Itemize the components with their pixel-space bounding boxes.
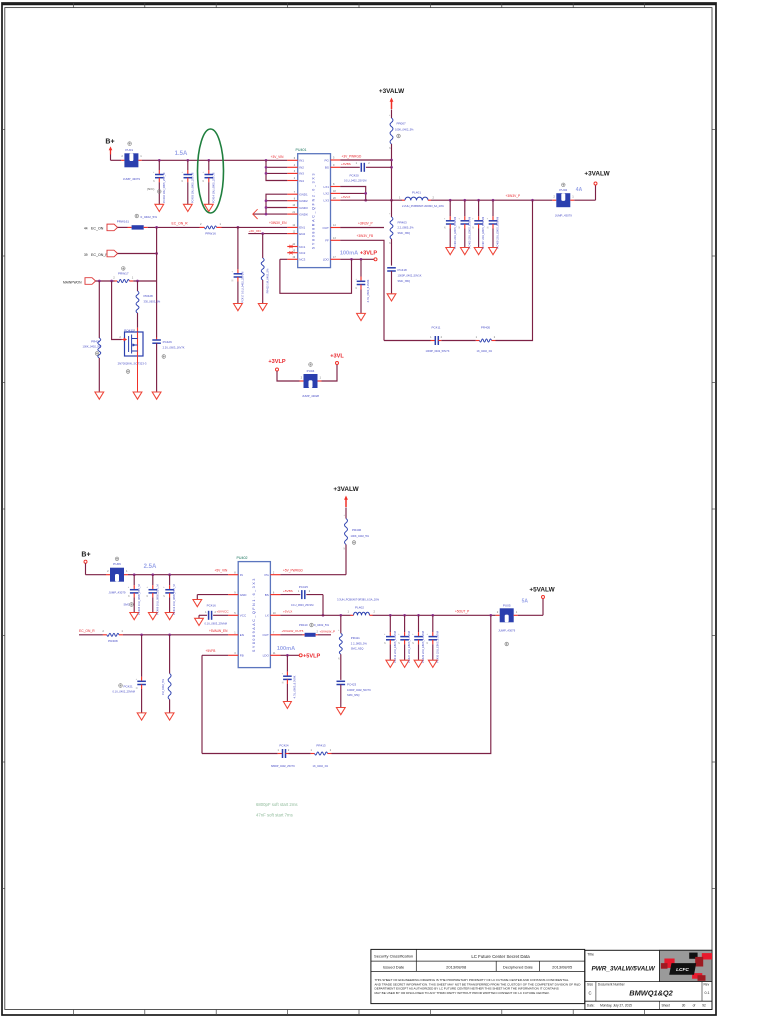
transistor Q PQ435 2N7002KW	[118, 328, 147, 373]
svg-text:+3C_ON: +3C_ON	[249, 229, 261, 233]
svg-text:2.2_0805_5%: 2.2_0805_5%	[351, 641, 368, 645]
jumper PU01	[121, 142, 142, 181]
svg-text:1: 1	[220, 222, 222, 226]
svg-text:2: 2	[497, 610, 499, 614]
power flag +3VALW (top right)	[574, 171, 610, 201]
svg-text:LX1: LX1	[324, 185, 330, 189]
svg-text:LCFC: LCFC	[676, 967, 689, 973]
svg-text:+3VL: +3VL	[330, 354, 344, 360]
resistor PR406 100K	[344, 515, 370, 551]
svg-text:LX: LX	[265, 614, 269, 618]
wire NC3 to LDO loop	[280, 259, 352, 293]
svg-text:PC416: PC416	[207, 603, 217, 607]
svg-text:SY8089AAC_QFN1.6_3X3: SY8089AAC_QFN1.6_3X3	[252, 577, 256, 652]
capacitor PC407 (out cap 3)	[472, 200, 485, 255]
wire MAINPWON to bus	[133, 280, 156, 283]
svg-text:PC403 10U_0805_25V_M: PC403 10U_0805_25V_M	[190, 173, 194, 203]
svg-text:16: 16	[292, 204, 295, 207]
svg-text:N: N	[128, 596, 130, 598]
svg-text:PU05: PU05	[503, 603, 511, 607]
svg-text:8: 8	[333, 183, 335, 186]
svg-text:PR410: PR410	[299, 623, 308, 627]
svg-text:2: 2	[441, 336, 443, 339]
svg-text:BS: BS	[325, 166, 329, 170]
svg-text:47nF soft start 7ms: 47nF soft start 7ms	[256, 813, 293, 818]
svg-text:PR413: PR413	[316, 744, 326, 748]
svg-text:N: N	[472, 227, 474, 229]
svg-text:7: 7	[294, 191, 296, 194]
svg-text:PC415: PC415	[299, 585, 309, 589]
svg-text:14: 14	[333, 224, 336, 227]
document number row text	[587, 983, 710, 998]
IC PU402 left pins	[228, 571, 247, 657]
svg-text:100mA: 100mA	[340, 251, 358, 257]
svg-text:2: 2	[113, 275, 115, 279]
svg-text:100K_0402_5%: 100K_0402_5%	[351, 534, 370, 538]
svg-text:4: 4	[294, 164, 296, 167]
svg-text:0.1: 0.1	[705, 991, 710, 995]
svg-text:PU04: PU04	[307, 369, 315, 373]
svg-text:17: 17	[333, 256, 336, 259]
capacitor PC403 (input cap 2)	[182, 160, 195, 211]
svg-text:PR427: PR427	[91, 339, 101, 343]
svg-text:+5VFB: +5VFB	[206, 649, 216, 653]
svg-text:4.7U_0603_6.3V9K: 4.7U_0603_6.3V9K	[366, 279, 370, 302]
svg-text:SMC_N5Q: SMC_N5Q	[398, 279, 411, 283]
capacitor PC409 (input cap 2)	[147, 575, 160, 620]
svg-text:5: 5	[333, 157, 335, 160]
svg-text:SY8088RAC_QFN2.0_3X3: SY8088RAC_QFN2.0_3X3	[312, 172, 316, 249]
svg-text:2: 2	[553, 195, 555, 199]
capacitor PC406 (input cap 1)	[128, 575, 141, 620]
svg-text:PC407 22U_E80S_6.3V9M: PC407 22U_E80S_6.3V9M	[481, 217, 485, 249]
svg-text:92: 92	[702, 1004, 706, 1008]
svg-text:EC_ON_R: EC_ON_R	[91, 253, 108, 257]
svg-text:EC_ON_R: EC_ON_R	[172, 221, 189, 225]
net label +5VALW_EN	[209, 629, 228, 633]
svg-text:+: +	[444, 218, 446, 220]
svg-text:BMWQ1&Q2: BMWQ1&Q2	[629, 989, 673, 998]
svg-text:+5VLP: +5VLP	[303, 653, 321, 659]
svg-text:PRW16: PRW16	[205, 232, 216, 236]
svg-text:4.7U_0603_6.3V9K: 4.7U_0603_6.3V9K	[293, 675, 297, 698]
svg-text:MAY BE USED BY OR DISCLOSED TO: MAY BE USED BY OR DISCLOSED TO ANY THIRD…	[375, 991, 550, 995]
svg-text:SMC_N5Q: SMC_N5Q	[347, 693, 360, 697]
svg-text:Sheet: Sheet	[662, 1004, 670, 1008]
svg-text:+: +	[459, 218, 461, 220]
svg-text:+5VALW: +5VALW	[529, 586, 555, 593]
power flag B+ (bottom circuit)	[81, 551, 106, 574]
svg-text:2: 2	[368, 162, 370, 165]
svg-text:4A: 4A	[576, 187, 583, 193]
wire top feedback loop	[384, 200, 533, 340]
svg-text:+3IN3V_FB: +3IN3V_FB	[357, 234, 374, 238]
wire PQ435 source to ground	[133, 356, 142, 399]
svg-text:+5VALW_P: +5VALW_P	[320, 629, 336, 633]
power flag +3VLP (LDO)	[360, 251, 378, 257]
capacitor PC416 (VCC decouple)	[195, 603, 229, 625]
svg-text:+: +	[128, 587, 130, 589]
net label +5V_PWRGD	[283, 569, 303, 573]
svg-text:1: 1	[399, 195, 401, 199]
svg-text:PU402: PU402	[237, 556, 248, 560]
svg-text:PC420: PC420	[350, 173, 360, 177]
svg-text:1: 1	[298, 590, 300, 593]
svg-text:+3IN3V_EN: +3IN3V_EN	[269, 221, 287, 225]
svg-text:1: 1	[476, 336, 478, 339]
capacitor PC410 (LDO cap)	[356, 259, 370, 320]
svg-text:PL401: PL401	[412, 190, 421, 194]
svg-text:PR007: PR007	[397, 122, 407, 126]
svg-text:+3VLP: +3VLP	[268, 359, 286, 365]
svg-text:0.1U_0402_25V1M: 0.1U_0402_25V1M	[344, 179, 366, 183]
power flag +3VALW (bottom pull-up)	[333, 486, 359, 519]
net label +5VBS	[283, 589, 293, 593]
svg-text:100K_0402_5%: 100K_0402_5%	[83, 345, 102, 349]
current label 2.5A	[144, 564, 157, 570]
svg-text:6: 6	[273, 591, 275, 594]
svg-text:+: +	[389, 115, 391, 117]
svg-text:JUMP_43079: JUMP_43079	[498, 629, 515, 633]
capacitor PC426	[152, 338, 185, 400]
net label +3VLX	[341, 195, 350, 199]
svg-text:PRW161: PRW161	[117, 219, 130, 223]
svg-text:PC404 22U_E80S_6.3V9M: PC404 22U_E80S_6.3V9M	[453, 217, 457, 249]
svg-text:IN2: IN2	[299, 166, 304, 170]
net label EC_ON_R	[172, 221, 189, 225]
svg-text:2: 2	[433, 195, 435, 199]
svg-text:0.1U_0603_25V1M: 0.1U_0603_25V1M	[291, 603, 313, 607]
power flag +3VALW (top pull-up)	[379, 88, 405, 118]
svg-text:PU01: PU01	[125, 148, 133, 152]
jumper PU04	[300, 363, 322, 398]
svg-text:+: +	[356, 279, 358, 281]
port MAINPWON	[63, 278, 115, 285]
svg-text:Deciphered Date: Deciphered Date	[503, 964, 534, 969]
svg-text:2.2UH_PCB8060T-2R2M3_6A_20%: 2.2UH_PCB8060T-2R2M3_6A_20%	[402, 204, 445, 208]
svg-text:PC424: PC424	[279, 744, 289, 748]
svg-text:PC405 22U_E80S_6.3V9M: PC405 22U_E80S_6.3V9M	[467, 217, 471, 249]
svg-text:0.1U_0603_25VAM: 0.1U_0603_25VAM	[205, 622, 227, 626]
capacitor PC427 (out cap 2)	[398, 615, 411, 667]
wire LX to inductor	[280, 614, 350, 617]
svg-text:6800P_0402_25V7K: 6800P_0402_25V7K	[271, 764, 295, 768]
svg-text:18: 18	[333, 190, 336, 193]
svg-text:IN: IN	[240, 573, 243, 577]
green highlight ellipse	[198, 129, 224, 213]
resistor PRW16	[200, 222, 222, 236]
svg-text:10: 10	[273, 612, 276, 615]
regulator IC U PU402 SY8089 box	[237, 556, 271, 668]
svg-text:6800pF soft start 2ms: 6800pF soft start 2ms	[256, 802, 298, 807]
svg-text:+: +	[384, 634, 386, 636]
svg-text:LDO: LDO	[263, 654, 270, 658]
wire IN bus	[265, 160, 288, 180]
svg-text:FB: FB	[240, 654, 244, 658]
svg-text:2.2_0805_5%: 2.2_0805_5%	[398, 226, 415, 230]
svg-text:JUMP_43079: JUMP_43079	[123, 177, 140, 181]
svg-text:+: +	[232, 271, 234, 273]
svg-text:0_0402_5%: 0_0402_5%	[314, 623, 329, 627]
svg-text:9: 9	[333, 164, 335, 167]
resistor PR427 100K	[83, 281, 104, 399]
svg-text:N: N	[147, 596, 149, 598]
security classification table	[371, 949, 585, 1003]
net label EC_ON_R (bottom)	[79, 629, 95, 633]
svg-text:PC427 22U_E80S_6.3V9M: PC427 22U_E80S_6.3V9M	[407, 631, 411, 663]
resistor PRW17	[113, 267, 134, 283]
svg-text:8: 8	[294, 197, 296, 200]
svg-text:100K_0402_5%: 100K_0402_5%	[395, 128, 414, 132]
svg-text:12: 12	[292, 224, 295, 227]
wire bottom feedback loop	[202, 615, 491, 753]
net label +5VVCC	[217, 610, 230, 614]
svg-text:+3V_VIN: +3V_VIN	[271, 155, 285, 159]
svg-text:+3VLP: +3VLP	[360, 251, 378, 257]
wire EC_ON_R net	[148, 226, 240, 229]
svg-text:PC402 10U_0805_25V_M: PC402 10U_0805_25V_M	[162, 173, 166, 203]
resistor PR410 0ohm	[280, 623, 331, 637]
svg-text:NC3: NC3	[299, 258, 305, 262]
power flag +3VLP (jumper left)	[268, 359, 299, 381]
net label +3IN3V_P (rail)	[506, 194, 521, 198]
svg-text:+: +	[427, 634, 429, 636]
svg-text:N: N	[459, 227, 461, 229]
wire +5VALW output rail	[373, 614, 496, 617]
svg-text:N: N	[153, 181, 155, 183]
svg-text:N: N	[282, 683, 284, 685]
svg-text:IN1: IN1	[299, 159, 304, 163]
resistor PR428 330	[134, 281, 161, 332]
net label +3V_PWRGD	[342, 154, 362, 158]
wire B+ bottom rail	[128, 573, 228, 576]
svg-text:PC426: PC426	[163, 340, 173, 344]
svg-text:MAINPWON: MAINPWON	[63, 280, 82, 284]
port EC_ON (pin 44)	[84, 224, 128, 231]
svg-text:N: N	[398, 643, 400, 645]
svg-text:+: +	[398, 634, 400, 636]
net label +3VBS	[341, 162, 351, 166]
svg-text:2: 2	[288, 749, 290, 752]
svg-text:1: 1	[320, 376, 322, 380]
svg-text:0.1U_0402_25VAM: 0.1U_0402_25VAM	[113, 690, 135, 694]
svg-text:PQ435: PQ435	[124, 328, 134, 332]
svg-text:39: 39	[84, 253, 88, 257]
svg-text:Security Classification: Security Classification	[374, 954, 413, 959]
svg-text:PC414 10U_0805_25V_M: PC414 10U_0805_25V_M	[211, 173, 215, 203]
svg-text:+: +	[487, 218, 489, 220]
svg-text:+3V_PWRGD: +3V_PWRGD	[342, 154, 362, 158]
svg-text:JUMP_43028: JUMP_43028	[302, 394, 319, 398]
wire GND bus + arrow	[253, 194, 287, 219]
capacitor PC421	[113, 635, 147, 720]
svg-text:2.5A: 2.5A	[144, 564, 157, 570]
svg-text:5A: 5A	[522, 598, 529, 604]
wire MAINPWON to gate	[112, 281, 122, 340]
svg-text:N: N	[136, 688, 138, 690]
resistor PR405 (feedback)	[476, 326, 496, 354]
svg-text:1: 1	[205, 611, 207, 614]
net label +3C_ON	[249, 229, 261, 233]
svg-text:PL402: PL402	[355, 605, 364, 609]
svg-text:2013/08/08: 2013/08/08	[446, 964, 467, 969]
svg-text:+3VBS: +3VBS	[341, 162, 351, 166]
svg-text:1: 1	[278, 749, 280, 752]
inductor PL402	[337, 598, 380, 616]
svg-text:2: 2	[309, 590, 311, 593]
svg-text:PC418: PC418	[398, 268, 408, 272]
svg-text:SMC_N5Q: SMC_N5Q	[351, 647, 364, 651]
svg-text:1: 1	[132, 275, 134, 279]
net label +3IN3V_P (OUT)	[358, 221, 373, 225]
capacitor PC420 (bootstrap)	[340, 162, 391, 182]
svg-text:N: N	[487, 227, 489, 229]
svg-text:1: 1	[134, 328, 136, 332]
capacitor PC404 (out cap 1)	[444, 200, 457, 255]
jumper PU02	[552, 183, 574, 218]
resistor PR403	[389, 200, 414, 265]
svg-text:100mA: 100mA	[277, 646, 295, 652]
title text	[587, 952, 655, 972]
capacitor PC411 (feedback)	[426, 326, 450, 354]
svg-text:PC413 10U_0805_25V_M: PC413 10U_0805_25V_M	[172, 584, 176, 614]
capacitor PC412 (out cap 1)	[384, 615, 397, 667]
resistor PR415 1M (EN pulldown)	[258, 234, 269, 311]
power flag +3VL (jumper right)	[322, 354, 345, 381]
capacitor PC429 (out cap 3)	[412, 615, 425, 667]
svg-text:+3IN3V_P: +3IN3V_P	[506, 194, 521, 198]
svg-text:PU06: PU06	[113, 562, 121, 566]
svg-text:EC_ON_R: EC_ON_R	[79, 629, 95, 633]
svg-text:VCC: VCC	[240, 614, 247, 618]
svg-text:1.5A: 1.5A	[175, 151, 188, 157]
wire EN net (bottom)	[123, 633, 228, 636]
svg-text:Issued Date: Issued Date	[383, 964, 405, 969]
net label +5VALW_OUT5	[282, 629, 304, 633]
power flag B+ (top circuit)	[105, 139, 121, 161]
svg-text:LDO: LDO	[323, 258, 330, 262]
svg-text:AND TRADE SECRET INFORMATION.: AND TRADE SECRET INFORMATION. THIS SHEET…	[375, 982, 582, 986]
wire PR406 to PG	[280, 545, 346, 575]
svg-text:PRW17: PRW17	[118, 271, 129, 275]
net label +3IN3V_EN	[269, 221, 287, 225]
label SMC	[124, 603, 134, 607]
svg-text:PR405: PR405	[481, 326, 491, 330]
svg-text:2: 2	[119, 335, 121, 339]
IC PU401 right pins	[323, 157, 341, 262]
wire LX1/LX2 loop	[340, 187, 367, 202]
wire +3VALW output rail	[431, 199, 552, 202]
svg-text:(N/C): (N/C)	[147, 187, 154, 191]
svg-text:2: 2	[107, 569, 109, 573]
wire GND to ground (PU402)	[193, 595, 228, 607]
capacitor PC408 (out cap 4)	[487, 200, 500, 255]
svg-text:44: 44	[84, 227, 88, 231]
svg-text:+: +	[163, 587, 165, 589]
svg-text:PC412 22U_E80S_6.3V9M: PC412 22U_E80S_6.3V9M	[393, 631, 397, 663]
label 100mA (top)	[340, 251, 358, 257]
svg-text:LC Future Center Secret Data: LC Future Center Secret Data	[471, 954, 530, 959]
svg-text:PU401: PU401	[296, 148, 307, 152]
svg-text:7: 7	[273, 632, 275, 635]
svg-text:EN: EN	[240, 633, 244, 637]
svg-text:LX3: LX3	[324, 199, 330, 203]
no-connect marks NC1 NC2	[289, 245, 292, 254]
svg-text:+: +	[412, 634, 414, 636]
svg-text:10: 10	[292, 243, 295, 246]
svg-text:+: +	[282, 674, 284, 676]
svg-text:+3VALW: +3VALW	[333, 486, 359, 493]
net label +3IN3V_FB	[357, 234, 374, 238]
IC PU401 left pins	[287, 157, 308, 262]
svg-text:+5VVCC: +5VVCC	[217, 610, 230, 614]
svg-text:+5V_PWRGD: +5V_PWRGD	[283, 569, 303, 573]
svg-text:IN4: IN4	[299, 179, 304, 183]
svg-text:Document Number: Document Number	[598, 983, 626, 987]
svg-text:3: 3	[294, 170, 296, 173]
svg-text:N: N	[427, 643, 429, 645]
svg-text:2: 2	[330, 749, 332, 752]
capacitor PC418	[387, 268, 422, 301]
svg-text:+3VALW: +3VALW	[584, 171, 610, 178]
svg-text:2: 2	[273, 571, 275, 574]
svg-text:+3VALW: +3VALW	[379, 88, 405, 95]
svg-text:1: 1	[348, 610, 350, 614]
resistor PRW161 0_0402_5%	[117, 214, 158, 229]
svg-text:+5VALW_EN: +5VALW_EN	[209, 629, 228, 633]
svg-text:1000P_0402_50V7K: 1000P_0402_50V7K	[347, 688, 371, 692]
legal notice text	[375, 978, 582, 995]
svg-text:PG: PG	[264, 573, 269, 577]
svg-text:11: 11	[273, 652, 276, 655]
svg-text:2N7002KW_SOT323-3: 2N7002KW_SOT323-3	[118, 361, 147, 365]
wire EN1 net	[222, 226, 288, 228]
svg-text:21: 21	[292, 211, 295, 214]
svg-text:+: +	[153, 172, 155, 174]
svg-text:+: +	[203, 172, 205, 174]
svg-text:1: 1	[572, 195, 574, 199]
svg-text:Date:: Date:	[587, 1004, 595, 1008]
net label +3V_VIN	[271, 155, 285, 159]
svg-text:330_0603_5%: 330_0603_5%	[144, 299, 161, 303]
svg-text:+5V_VIN: +5V_VIN	[215, 569, 229, 573]
svg-text:N: N	[338, 658, 340, 660]
svg-text:30: 30	[682, 1004, 686, 1008]
wire EN2 net	[248, 232, 287, 235]
svg-text:20: 20	[333, 197, 336, 200]
net label +5VLX	[283, 610, 292, 614]
svg-text:+: +	[182, 172, 184, 174]
svg-text:PU02: PU02	[559, 188, 567, 192]
svg-text:13: 13	[333, 237, 336, 240]
inductor PL401	[399, 190, 444, 207]
svg-text:1: 1	[126, 569, 128, 573]
svg-text:9: 9	[234, 591, 236, 594]
svg-text:1: 1	[311, 749, 313, 752]
svg-text:+5VLX: +5VLX	[283, 610, 292, 614]
resistor PR007 100K	[389, 115, 414, 150]
svg-text:11: 11	[293, 230, 296, 233]
svg-text:+: +	[338, 630, 340, 632]
svg-text:1: 1	[356, 162, 358, 165]
net label +5VFB	[206, 649, 216, 653]
svg-text:IN3: IN3	[299, 172, 304, 176]
svg-text:NC2: NC2	[299, 251, 305, 255]
svg-text:C: C	[589, 991, 592, 996]
svg-text:B+: B+	[105, 139, 114, 146]
svg-text:1: 1	[121, 629, 123, 633]
svg-text:N: N	[232, 280, 234, 282]
